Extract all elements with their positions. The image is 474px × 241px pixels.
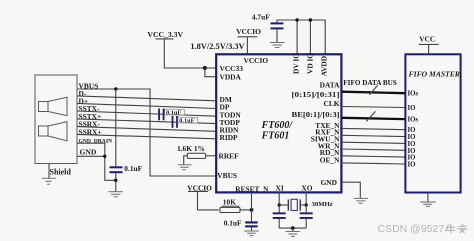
svg-text:VCC_3.3V: VCC_3.3V	[147, 30, 183, 39]
connector J1 (USB3 receptacle)	[35, 75, 77, 164]
svg-text:VBUS: VBUS	[217, 171, 237, 180]
wire cap to ground	[251, 227, 253, 231]
ground (RREF)	[178, 165, 192, 170]
wire crystal gnd rail	[279, 227, 306, 229]
node VCC33	[203, 66, 207, 70]
capacitor (XI load)	[273, 212, 286, 219]
node below cap	[114, 179, 117, 182]
capacitor C-series 0.1uF on SSTX-	[158, 109, 164, 121]
svg-text:DV IO: DV IO	[292, 53, 301, 74]
svg-text:GND: GND	[80, 147, 97, 156]
svg-text:XI: XI	[276, 184, 284, 193]
svg-text:RIDP: RIDP	[220, 133, 239, 142]
node crystal gnd	[291, 226, 295, 230]
wire cap to ground	[276, 29, 278, 42]
svg-text:FIFO MASTER: FIFO MASTER	[409, 70, 460, 79]
svg-text:VDDA: VDDA	[220, 72, 242, 81]
ground (shield)	[42, 178, 56, 184]
wire XO	[305, 192, 307, 212]
wire SSRX- to RIDN	[77, 127, 216, 132]
wire VBUS tap down	[115, 89, 117, 166]
ground (FIFO)	[420, 202, 436, 206]
wire D+ to DP	[77, 103, 216, 108]
node RESET_N	[250, 208, 254, 212]
svg-text:IOs: IOs	[408, 90, 419, 97]
bus DATA	[342, 92, 405, 94]
wire RREF right	[206, 155, 216, 157]
svg-text:Shield: Shield	[50, 167, 72, 176]
wire RD_N	[342, 156, 405, 157]
IC U2 FIFO MASTER	[405, 54, 460, 192]
ground (crystal)	[286, 232, 301, 237]
capacitor C-series 0.1uF on SSTX+	[172, 116, 178, 128]
svg-text:FIFO DATA BUS: FIFO DATA BUS	[343, 80, 397, 87]
capacitor 0.1uF (reset)	[245, 221, 258, 227]
svg-text:VCC: VCC	[419, 35, 435, 44]
svg-text:[0:15]/[0:31]: [0:15]/[0:31]	[292, 90, 340, 99]
wire FIFO GND	[427, 193, 429, 203]
wire DV IO pin	[296, 20, 298, 54]
svg-text:30MHz: 30MHz	[312, 201, 333, 208]
svg-text:VD IO: VD IO	[305, 53, 314, 74]
svg-text:1.8V/2.5V/3.3V: 1.8V/2.5V/3.3V	[190, 42, 244, 51]
svg-text:XO: XO	[301, 184, 312, 193]
watermark CSDN	[378, 223, 468, 235]
svg-text:0.1uF: 0.1uF	[224, 218, 242, 227]
wire SIWU_N	[342, 142, 405, 143]
bus BE	[342, 118, 405, 119]
svg-text:RESET_N: RESET_N	[235, 184, 269, 193]
power VCC_3.3V	[147, 30, 205, 68]
wire XI	[278, 192, 280, 212]
ground (4.7uF)	[270, 43, 285, 48]
svg-text:IO: IO	[408, 105, 416, 112]
wire VBUS	[77, 89, 216, 176]
wire RXF_N	[342, 135, 405, 136]
value label 0.1uF (boxed)	[178, 117, 198, 124]
svg-text:OE_N: OE_N	[320, 155, 340, 164]
wire to VDDA pin	[205, 68, 216, 77]
svg-text:BE[0:1]/[0:3]: BE[0:1]/[0:3]	[292, 110, 340, 119]
wire CLK	[342, 107, 405, 108]
node VBUS tap	[114, 87, 117, 90]
wire chip GND to ground	[342, 182, 360, 198]
wire to ground	[292, 228, 294, 231]
wire WR_N	[342, 149, 405, 150]
wire GND_DRAIN	[77, 143, 105, 156]
resistor R 1.6K	[187, 153, 205, 158]
svg-text:IOs: IOs	[408, 116, 419, 123]
wire shield to ground	[48, 164, 50, 179]
bus slash BE	[366, 111, 375, 121]
wire cap to ground	[115, 173, 117, 192]
wire SSTX+ to TODP	[77, 119, 216, 124]
resistor R 10K	[220, 207, 240, 212]
ground (reset cap)	[244, 231, 259, 236]
power VCCIO (bottom)	[187, 184, 219, 210]
svg-text:0.1uF: 0.1uF	[124, 164, 142, 173]
wire GND	[77, 156, 116, 180]
power VCCIO (top)	[236, 27, 261, 54]
svg-text:10K: 10K	[223, 198, 236, 207]
bus slash DATA	[369, 85, 377, 95]
svg-text:VCCIO: VCCIO	[244, 56, 269, 65]
svg-text:CLK: CLK	[323, 99, 339, 108]
svg-text:FT600/: FT600/	[261, 120, 294, 131]
svg-text:0.1uF: 0.1uF	[166, 109, 181, 116]
node rail VD IO	[309, 18, 312, 21]
svg-text:4.7uF: 4.7uF	[252, 13, 270, 22]
wire SSRX+ to RIDP	[77, 134, 216, 138]
svg-text:1.6K 1%: 1.6K 1%	[177, 144, 205, 153]
wire RESET_N	[251, 192, 253, 221]
capacitor 4.7uF	[271, 22, 284, 29]
svg-text:VCCIO: VCCIO	[236, 27, 261, 36]
wire TXE_N	[342, 128, 405, 129]
wire SSTX- to TODN	[77, 111, 216, 116]
svg-text:RREF: RREF	[219, 152, 240, 161]
svg-text:GND: GND	[321, 178, 337, 187]
power VCC (FIFO)	[419, 35, 439, 54]
svg-text:DATA: DATA	[320, 80, 341, 89]
wire XI cap down	[278, 219, 280, 228]
wire D- to DM	[77, 96, 216, 101]
wire resistor to RESET node	[240, 209, 252, 211]
wire to VCC33 pin	[205, 67, 216, 69]
svg-text:IO: IO	[408, 161, 416, 168]
svg-text:CSDN @9527: CSDN @9527	[378, 223, 445, 235]
wire OE_N	[342, 163, 405, 164]
wire XO cap down	[305, 219, 307, 228]
value label 0.1uF (boxed)	[165, 109, 185, 116]
svg-text:FT601: FT601	[261, 131, 290, 142]
capacitor (XO load)	[300, 212, 313, 219]
IC U1 FT600/FT601	[216, 54, 341, 192]
capacitor 0.1uF (VBUS decoupling)	[110, 166, 123, 173]
wire RREF left to ground	[184, 156, 188, 165]
svg-text:AVDD: AVDD	[319, 56, 328, 76]
ground (chip GND)	[354, 198, 368, 203]
svg-text:0.1uF: 0.1uF	[179, 117, 194, 124]
node rail DV IO	[295, 18, 298, 21]
wire top rail	[277, 20, 325, 54]
wire VD IO pin	[309, 20, 311, 54]
node GND junction	[103, 155, 106, 158]
ground (VBUS cap)	[108, 192, 123, 197]
crystal Y1 30MHz	[278, 199, 308, 210]
